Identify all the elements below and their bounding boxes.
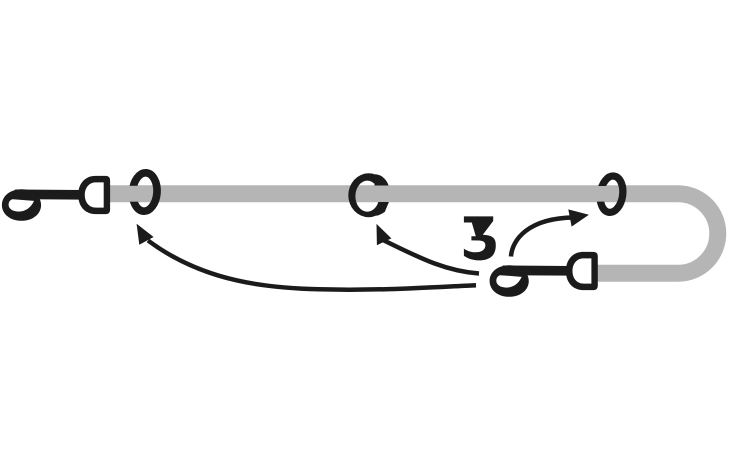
ring R2 (middle C-ring) — [348, 173, 389, 217]
ring R1 (left O-ring) — [131, 172, 158, 212]
arrow A3 (arrow to right ring) — [511, 209, 589, 256]
hook shaft — [15, 189, 81, 199]
ring R2 bottom tip — [377, 202, 389, 216]
ring R2 top tip — [375, 174, 389, 185]
label 3 — [464, 216, 496, 260]
snap hook H2 (loose end with clip) — [490, 252, 598, 297]
hook eye loop — [2, 189, 41, 221]
arrow A1 (long arrow to left ring) — [137, 224, 476, 290]
hook D attachment — [78, 176, 110, 214]
strap over ring R3 far limb — [595, 186, 609, 202]
arrow A2 (middle arrow to C-ring) — [377, 224, 480, 274]
strap over ring R1 far limb — [127, 186, 142, 202]
snap hook H1 (left, clipped to strap end) — [2, 176, 110, 221]
leash strap (gray webbing with U-turn) — [105, 194, 718, 274]
ring R3 (right O-ring) — [598, 175, 625, 214]
